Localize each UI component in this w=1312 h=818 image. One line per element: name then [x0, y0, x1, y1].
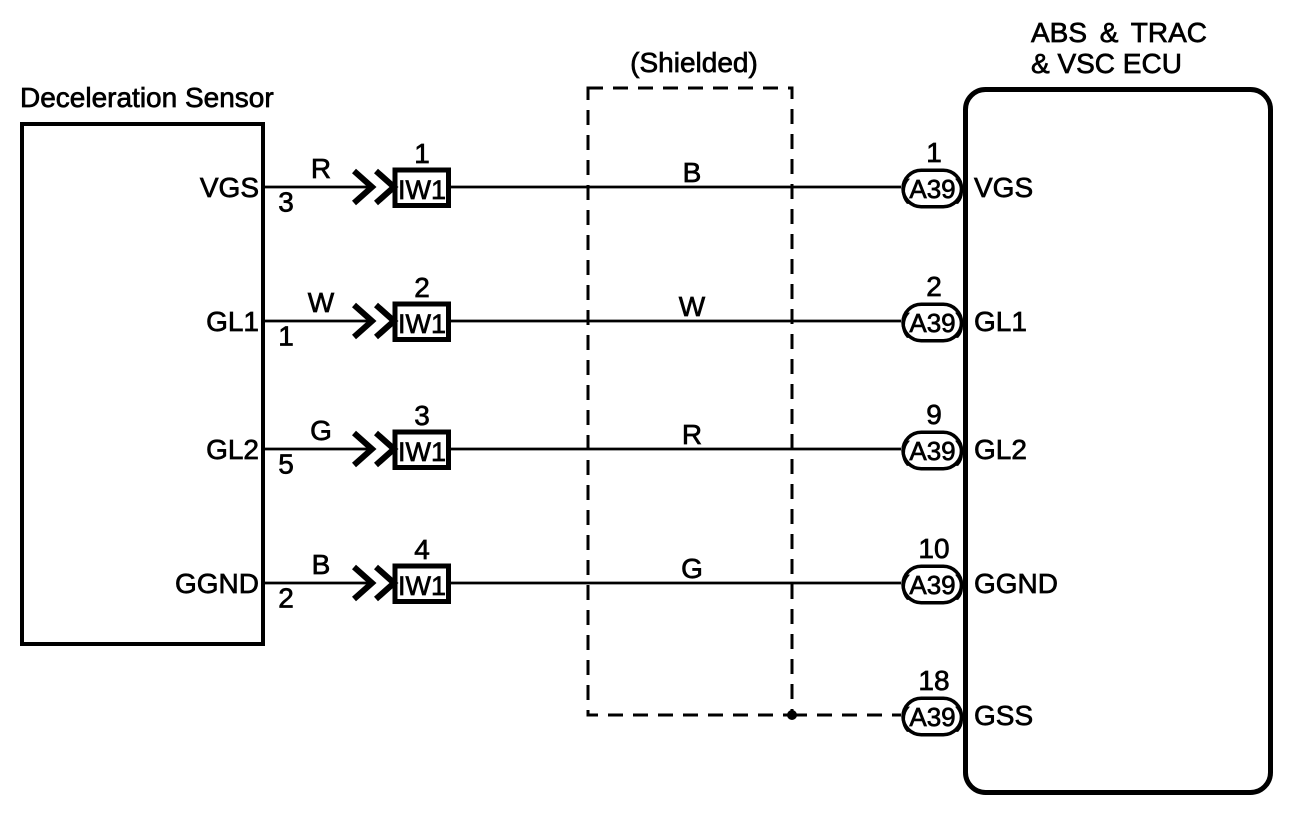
svg-text:(A39): (A39): [901, 436, 965, 466]
svg-text:IW1: IW1: [398, 309, 446, 339]
connector IW1 box (row 3): [395, 432, 449, 468]
shield junction dot: [787, 710, 797, 720]
svg-text:3: 3: [278, 187, 294, 218]
connector arrows (male) row 2: [354, 305, 394, 337]
svg-text:VGS: VGS: [974, 172, 1033, 203]
wire GGND: sensor to IW1: [264, 582, 371, 585]
svg-text:2: 2: [414, 272, 430, 303]
svg-text:ABS & TRAC: ABS & TRAC: [1031, 17, 1207, 48]
shield dashed box (Shielded): [588, 88, 792, 715]
svg-text:(A39): (A39): [901, 308, 965, 338]
svg-text:GGND: GGND: [175, 568, 259, 599]
component box: ABS &amp; TRAC &amp; VSC ECU: [966, 90, 1271, 793]
connector A39 oval (pin 1): [903, 170, 962, 207]
svg-text:& VSC ECU: & VSC ECU: [1031, 48, 1182, 79]
svg-text:GL2: GL2: [974, 434, 1027, 465]
svg-text:4: 4: [414, 534, 430, 565]
svg-text:IW1: IW1: [398, 437, 446, 467]
svg-text:W: W: [308, 287, 335, 318]
connector IW1 box (row 1): [395, 170, 449, 206]
svg-text:(Shielded): (Shielded): [630, 47, 758, 78]
svg-text:1: 1: [926, 137, 942, 168]
svg-text:(A39): (A39): [901, 702, 965, 732]
connector A39 oval (pin 2): [903, 304, 962, 341]
wire VGS: sensor to IW1: [264, 186, 371, 189]
svg-text:B: B: [312, 549, 331, 580]
connector arrows (male) row 3: [354, 433, 394, 465]
svg-text:IW1: IW1: [398, 175, 446, 205]
svg-text:G: G: [681, 553, 703, 584]
svg-text:GGND: GGND: [974, 568, 1058, 599]
svg-text:2: 2: [926, 271, 942, 302]
svg-text:R: R: [682, 419, 702, 450]
svg-text:GL1: GL1: [974, 306, 1027, 337]
svg-text:W: W: [679, 291, 706, 322]
svg-text:9: 9: [926, 399, 942, 430]
svg-text:2: 2: [278, 583, 294, 614]
svg-text:(A39): (A39): [901, 174, 965, 204]
wire: IW1 to A39 pin 9: [451, 448, 901, 451]
svg-text:B: B: [683, 157, 702, 188]
connector A39 oval (pin 9): [903, 432, 962, 469]
connector arrows (male) row 1: [354, 171, 394, 203]
connector IW1 box (row 4): [395, 566, 449, 602]
connector arrows (male) row 4: [354, 567, 394, 599]
wire GL2: sensor to IW1: [264, 448, 371, 451]
svg-text:GL1: GL1: [206, 306, 259, 337]
shield drain wire (dashed) to A39 pin 18: [792, 714, 901, 717]
svg-text:3: 3: [414, 400, 430, 431]
wire: IW1 to A39 pin 2: [451, 320, 901, 323]
svg-text:(A39): (A39): [901, 570, 965, 600]
svg-text:1: 1: [278, 321, 294, 352]
connector A39 oval (pin 10): [903, 566, 962, 603]
svg-text:GSS: GSS: [974, 700, 1033, 731]
svg-text:R: R: [311, 153, 331, 184]
svg-text:GL2: GL2: [206, 434, 259, 465]
svg-text:10: 10: [918, 533, 949, 564]
svg-text:Deceleration Sensor: Deceleration Sensor: [20, 82, 274, 113]
svg-text:VGS: VGS: [200, 172, 259, 203]
wire GL1: sensor to IW1: [264, 320, 371, 323]
connector A39 oval (pin 18): [903, 698, 962, 735]
svg-text:1: 1: [414, 138, 430, 169]
svg-text:G: G: [310, 415, 332, 446]
svg-text:5: 5: [278, 449, 294, 480]
component box: Deceleration Sensor connector: [22, 124, 263, 644]
svg-text:18: 18: [918, 665, 949, 696]
svg-text:IW1: IW1: [398, 571, 446, 601]
connector IW1 box (row 2): [395, 304, 449, 340]
wire: IW1 to A39 pin 1: [451, 186, 901, 189]
wire: IW1 to A39 pin 10: [451, 582, 901, 585]
